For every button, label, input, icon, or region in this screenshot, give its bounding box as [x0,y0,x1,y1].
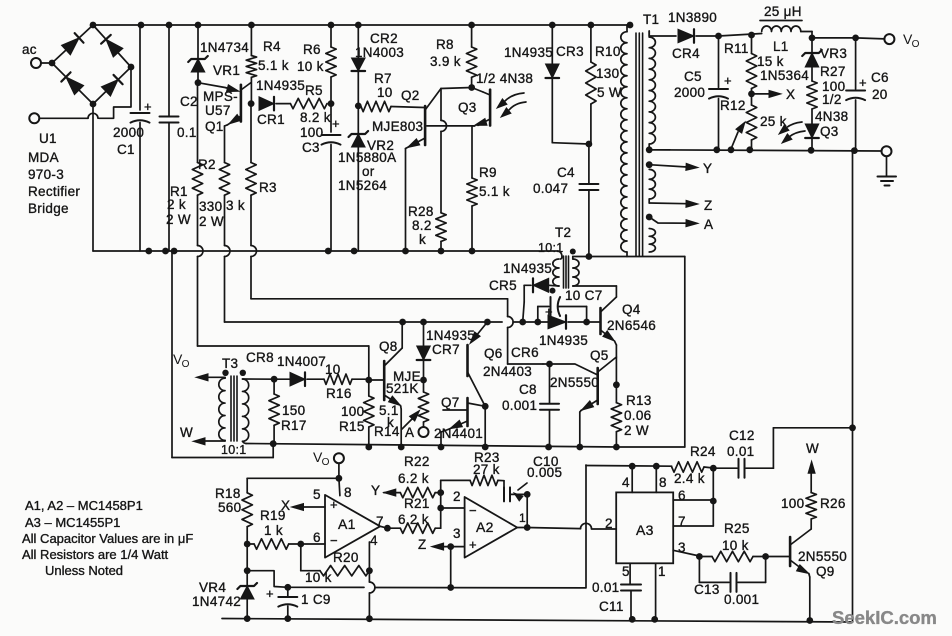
svg-text:SeekIC.com: SeekIC.com [832,607,937,628]
svg-text:Q3: Q3 [820,124,839,139]
wire Q1 emitter to R2 [224,126,226,163]
resistor R25 [699,521,769,562]
node CR6 out [583,319,590,326]
svg-text:R22: R22 [404,454,430,469]
wire CR4 to L1 [715,32,762,40]
svg-text:5: 5 [313,487,321,502]
svg-text:R16: R16 [326,386,352,401]
label ac [22,42,37,57]
svg-text:MPS-: MPS- [203,89,238,104]
timer A3 [616,492,673,563]
svg-text:3.9 k: 3.9 k [430,54,461,69]
bridge rectifier U1 [49,25,135,107]
ac terminal upper [31,58,52,68]
svg-text:Z: Z [418,537,427,552]
resistor R22 [384,454,441,498]
diode CR8 [274,372,324,386]
node A1 output [380,525,391,532]
junction lower rail [351,248,358,255]
arrow Y in [371,483,396,498]
svg-text:R8: R8 [436,37,454,52]
svg-text:970-3: 970-3 [28,167,64,182]
zener VR3 [760,38,847,83]
wiper R14 [402,411,420,430]
resistor R18 [215,486,252,544]
svg-text:10: 10 [325,362,341,377]
svg-text:2N6546: 2N6546 [607,318,656,333]
wire output ground bus [649,146,881,154]
resistor R13 [611,385,651,451]
arrow X in [281,498,325,513]
svg-text:1N4734: 1N4734 [200,40,249,55]
transformer T3 left coil [219,378,225,440]
svg-text:R3: R3 [259,180,277,195]
wire pin2 A2 [441,507,465,509]
junction lower rail [402,248,409,255]
junction lower rail [162,248,169,255]
wire top supply bus [93,24,630,26]
svg-text:CR6: CR6 [511,345,539,360]
svg-text:0.01: 0.01 [727,444,754,459]
junction top bus [90,22,97,29]
svg-text:Q6: Q6 [484,346,503,361]
svg-text:C5: C5 [684,69,702,84]
svg-text:10:1: 10:1 [538,241,564,255]
light arrows into Q3 [497,93,526,117]
junction top bus [468,22,475,29]
transformer T2 right coil [573,257,579,287]
transformer T3 right coil [243,379,249,441]
svg-text:CR5: CR5 [489,278,517,293]
svg-text:X: X [786,87,795,102]
transformer T1 core [636,33,643,256]
svg-text:R9: R9 [479,165,497,180]
svg-text:R5: R5 [305,83,323,98]
svg-text:6.2 k: 6.2 k [398,512,429,527]
svg-text:0.001: 0.001 [724,592,759,607]
junction top bus [328,22,335,29]
resistor R20 [301,544,370,585]
potentiometer R12 [720,94,787,149]
svg-text:2: 2 [605,516,613,531]
node R19 pin6 [297,541,325,548]
resistor R1 [166,83,203,227]
svg-text:10 k: 10 k [305,570,332,585]
junction top bus [355,22,362,29]
label T3 [221,356,247,457]
svg-text:2: 2 [453,489,461,504]
wire R21-R22 vertical [437,489,444,528]
resistor R8 [430,25,477,88]
svg-text:1N4007: 1N4007 [277,354,326,369]
svg-text:1: 1 [519,511,526,525]
ac terminal lower [29,113,88,123]
svg-text:C11: C11 [599,599,624,614]
svg-text:CR1: CR1 [257,112,285,127]
wire rail1 drop to Q8 base node [368,346,370,380]
node VR1-R1-base [195,79,202,86]
svg-text:150: 150 [282,403,305,418]
junction top bus [588,22,595,29]
transistor Q9 2N5550 [790,519,847,579]
svg-text:Q1: Q1 [205,119,224,134]
svg-text:R12: R12 [720,98,746,113]
svg-text:VR3: VR3 [820,46,847,61]
transistor Q8 MJE521K [365,322,421,409]
svg-text:C4: C4 [557,165,575,180]
resistor R11 [724,35,784,94]
svg-text:1N4003: 1N4003 [355,45,404,60]
capacitor C1 [113,25,152,251]
svg-text:1N5264: 1N5264 [338,178,387,193]
wire pins 6-7 [673,468,716,526]
resistor R6 [297,25,336,104]
resistor R9 [467,165,510,251]
wire Z drop [288,547,586,591]
opto transistor Q3 4N38 [458,71,533,126]
wire Q4 emitter to Q5 collector [615,345,617,385]
label T2 [538,225,571,255]
junction top bus [195,22,202,29]
svg-text:VR4: VR4 [199,580,226,595]
svg-text:+: + [724,73,732,88]
arrow W up [806,441,819,493]
svg-text:R17: R17 [281,418,307,433]
potentiometer R14 [374,380,429,439]
svg-text:521K: 521K [386,381,419,396]
transistor Q2 MJE803 [372,88,441,149]
arrow X out [752,87,796,102]
wire A3 pin4 [631,466,633,492]
watermark SeekIC.com [832,607,937,628]
svg-text:A: A [405,425,414,440]
wire T3 right top to CR8 [243,378,275,380]
svg-text:O: O [912,39,920,50]
svg-text:0.005: 0.005 [527,465,562,480]
svg-text:2 W: 2 W [166,212,191,227]
svg-text:1N5364: 1N5364 [760,68,809,83]
wire left tall rail [172,253,273,458]
svg-text:k: k [419,232,426,247]
svg-text:or: or [362,164,375,179]
svg-text:1N5880A: 1N5880A [338,150,396,165]
svg-text:R6: R6 [303,42,321,57]
junctions bottom bus [244,615,251,622]
svg-text:MDA: MDA [28,150,59,165]
svg-text:5.1 k: 5.1 k [258,58,289,73]
svg-text:All Resistors are 1/4 Watt: All Resistors are 1/4 Watt [22,547,169,562]
svg-text:8.2: 8.2 [412,218,432,233]
svg-text:6: 6 [313,530,321,545]
junction top bus [166,22,173,29]
node Vo feed [336,475,343,482]
wire T1 sec top to CR4 [649,31,676,36]
svg-text:1N4935: 1N4935 [256,78,305,93]
svg-text:2N4401: 2N4401 [434,426,483,441]
svg-text:20: 20 [872,87,888,102]
svg-text:R24: R24 [690,444,716,459]
wire right ground drop [852,151,854,428]
svg-text:W: W [806,441,819,456]
op-amp A2 [453,489,526,558]
svg-text:+: + [330,497,338,512]
terminal Vo top right [884,31,919,50]
diode CR1 [256,78,305,127]
node Q6-Q7 collector [482,403,489,410]
capacitor C11 [592,563,641,623]
svg-text:5: 5 [622,564,630,579]
junction control bus [484,319,491,326]
svg-text:130: 130 [596,66,619,81]
transformer T1 secondary [649,31,655,252]
resistor R28 [408,204,446,251]
wire Q3 base rail [427,125,475,127]
svg-text:0.01: 0.01 [592,580,619,595]
svg-text:+: + [332,116,340,131]
wire A3 left vertical [585,465,587,587]
svg-text:Q2: Q2 [401,88,420,103]
wire Vo to R18 [247,478,339,493]
svg-text:560: 560 [218,500,241,515]
svg-text:Q3: Q3 [458,100,477,115]
arrow Vo out T3 [173,351,225,381]
svg-text:CR2: CR2 [370,31,398,46]
svg-text:Unless Noted: Unless Noted [45,563,123,578]
svg-text:C3: C3 [302,140,320,155]
svg-text:100: 100 [300,125,323,140]
svg-text:C2: C2 [180,94,198,109]
resistor R19 [247,508,301,549]
transformer T2 core [564,256,569,288]
svg-text:R14: R14 [374,424,400,439]
junction Q7 emitter [438,444,445,451]
wire ac lower jog [99,67,131,118]
resistor R7 [361,71,424,112]
polarity dots T3 [222,370,246,376]
wire R28 column [441,89,447,213]
svg-text:−: − [469,503,477,518]
diode CR7 [417,322,475,380]
junction lower rail [145,248,152,255]
svg-text:2 k: 2 k [167,197,186,212]
junction lower rail [438,248,445,255]
wire Q5 base [543,361,598,375]
svg-text:0.047: 0.047 [533,181,568,196]
svg-text:2 W: 2 W [199,214,224,229]
svg-text:4N38: 4N38 [815,109,848,124]
svg-text:O: O [322,457,330,468]
svg-text:8: 8 [659,475,667,490]
junction control bus [420,319,427,326]
wire A3 pin1 [651,563,658,623]
wire right ground column [852,428,854,622]
polarity dot T2 top [570,249,576,255]
capacitor C3 [300,104,341,251]
svg-text:Q5: Q5 [590,348,609,363]
svg-text:10 k: 10 k [297,59,324,74]
wire A2 out to A3 [517,523,616,529]
polarity dot T2 bottom [550,288,556,294]
resistor R10 [586,25,622,144]
svg-text:All Capacitor Values are in μF: All Capacitor Values are in μF [22,531,193,546]
svg-text:2000: 2000 [113,125,144,140]
wire pin4 [366,542,375,622]
svg-text:C8: C8 [519,382,537,397]
svg-text:R15: R15 [339,419,365,434]
wire hop bridge bottom [88,113,98,118]
capacitor C7 [538,288,603,322]
resistor R24 [672,444,716,486]
svg-text:CR3: CR3 [556,44,584,59]
svg-text:Rectifier: Rectifier [28,184,80,199]
wire lower supply rail [93,251,562,257]
diode CR5 [489,261,559,293]
svg-text:2N5550: 2N5550 [798,549,847,564]
svg-text:+: + [266,586,274,601]
label notes block [22,498,193,578]
svg-text:U57: U57 [205,103,231,118]
svg-text:R21: R21 [404,496,430,511]
resistor R15 [339,380,374,450]
svg-text:CR4: CR4 [672,46,700,61]
node L1-VR3-C6 [809,35,816,42]
wire Q2 emitter down [405,149,407,252]
inductor L1 [760,4,802,54]
transistor Q4 2N6546 [573,286,656,345]
svg-text:1N4935: 1N4935 [504,45,553,60]
svg-text:1 k: 1 k [264,523,283,538]
transformer T2 left coil [553,257,562,286]
svg-text:Z: Z [704,198,713,213]
label CR8 [246,350,326,369]
node R10-CR3-C4 [586,141,593,148]
wire CR5 to bus [523,285,525,322]
svg-text:T2: T2 [555,225,571,240]
svg-text:10: 10 [377,85,393,100]
svg-text:R7: R7 [374,71,392,86]
svg-text:2.4 k: 2.4 k [674,471,705,486]
svg-text:+: + [469,537,477,552]
wire R1 to rail1 [198,195,369,346]
svg-text:C13: C13 [694,582,720,597]
svg-text:R10: R10 [595,44,621,59]
svg-text:2N5550: 2N5550 [550,375,599,390]
label T1 [643,12,659,27]
junction R17 mid bus [270,440,277,447]
wire R25 to Q9 base [766,556,791,558]
svg-text:8: 8 [344,485,352,500]
terminal Vo A1 supply [313,449,344,478]
svg-text:R2: R2 [198,157,216,172]
label U1 block [28,131,80,216]
junction top bus [248,22,255,29]
svg-text:2000: 2000 [674,85,705,100]
A3 pin labels [605,475,686,579]
wire A3 pin8 [655,466,657,492]
svg-text:10:1: 10:1 [221,443,247,457]
svg-text:1/2 4N38: 1/2 4N38 [476,71,533,86]
svg-text:ac: ac [22,42,37,57]
svg-text:+: + [144,99,152,114]
wire pin8 drop [339,478,340,495]
wire Q5 emitter down [576,412,583,450]
svg-text:1N4935: 1N4935 [426,328,475,343]
wire bridge bottom to bus [92,104,94,251]
svg-text:100: 100 [781,496,804,511]
svg-text:O: O [182,359,190,370]
svg-text:R28: R28 [408,204,434,219]
capacitor C8 [502,364,559,450]
svg-text:R26: R26 [820,496,846,511]
node R8-Q2-Q3 [468,84,475,91]
transformer T3 core [231,376,237,441]
capacitor C4 [533,144,598,257]
svg-text:MJE803: MJE803 [372,119,423,134]
svg-text:1 C9: 1 C9 [301,592,331,607]
junction lower rail [171,248,178,255]
svg-text:T1: T1 [643,12,659,27]
svg-text:10 C7: 10 C7 [565,288,603,303]
transistor Q7 2N4401 [434,395,485,447]
wire rail0 drop [508,299,543,364]
svg-text:Y: Y [703,161,712,176]
transistor Q6 2N4403 [468,322,533,406]
svg-text:5 W: 5 W [597,85,622,100]
resistor R2 [198,157,230,229]
svg-text:6.2 k: 6.2 k [398,471,429,486]
resistor R3 [226,104,277,213]
wire L1 to Vo node [801,32,812,38]
diode CR6 [511,315,588,360]
wire bottom bus [222,619,853,623]
svg-text:W: W [180,425,193,440]
junction top bus [138,22,145,29]
svg-text:A3: A3 [636,522,654,538]
svg-text:+: + [545,304,553,319]
svg-text:0.001: 0.001 [502,398,537,413]
transistor Q5 2N5550 [550,348,616,412]
svg-text:R20: R20 [333,550,359,565]
svg-text:VR1: VR1 [213,63,240,78]
arrow W out T3 [180,425,225,445]
svg-text:1: 1 [658,564,666,579]
capacitor C6 [846,38,889,149]
zener VR4 [192,544,257,619]
svg-text:R25: R25 [724,521,750,536]
svg-text:100: 100 [341,404,364,419]
svg-text:3 k: 3 k [226,198,245,213]
node CR8-R17 [271,376,278,383]
resistor R26 [781,493,846,519]
svg-text:CR7: CR7 [432,342,460,357]
svg-text:R19: R19 [260,508,286,523]
svg-text:1N3890: 1N3890 [668,10,717,25]
svg-text:0.06: 0.06 [624,408,651,423]
diode CR2 [352,25,405,106]
svg-text:10 k: 10 k [722,538,749,553]
svg-text:Q8: Q8 [379,339,398,354]
svg-text:CR8: CR8 [246,350,274,365]
wire Q2 collector loop [441,88,472,89]
terminal A bottom [405,425,429,440]
wire Q3 emitter to R9 [472,126,475,178]
svg-text:C1: C1 [117,142,135,157]
svg-text:C6: C6 [871,70,889,85]
svg-text:0.1: 0.1 [177,125,197,140]
svg-text:1N4742: 1N4742 [192,594,241,609]
wiper R12 [731,122,745,149]
wire pin3 [673,550,703,560]
